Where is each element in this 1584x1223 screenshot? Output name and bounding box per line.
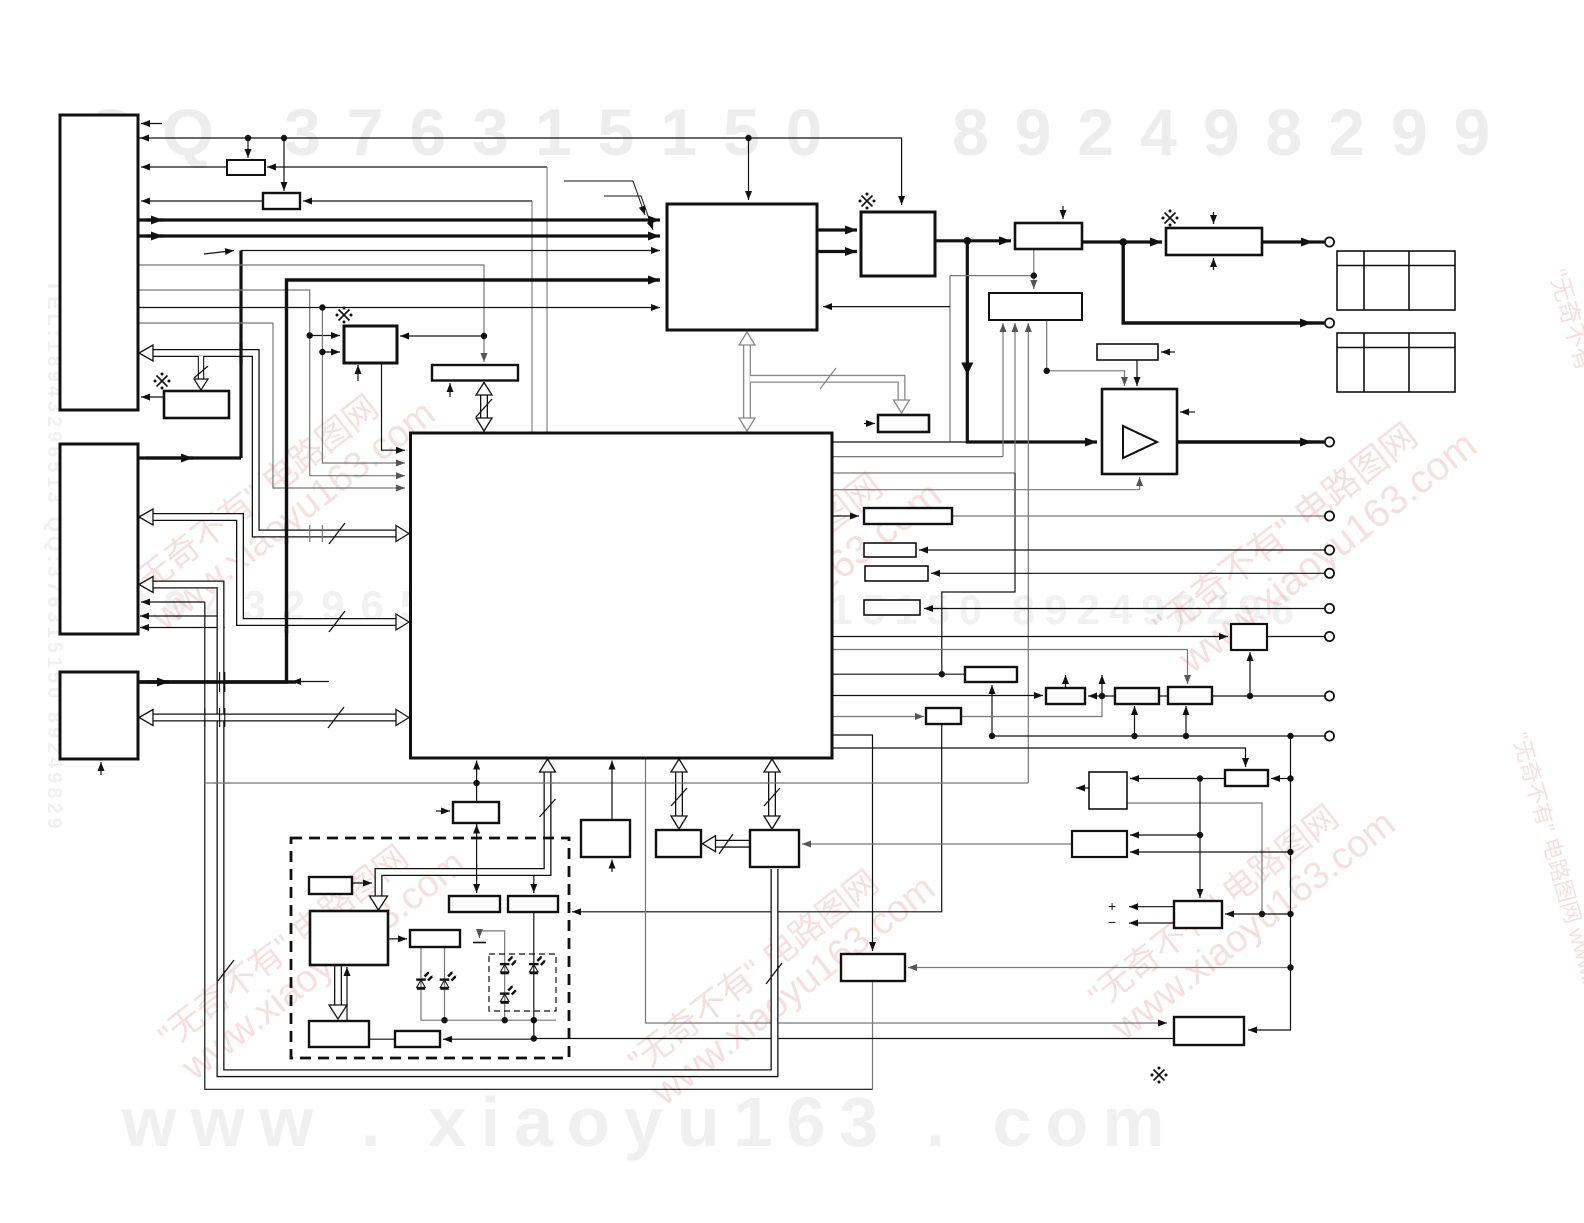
wire LED rail to AF y1038.5 <box>534 1038 1174 1040</box>
wire thick bus A to E (2) <box>138 234 660 237</box>
IC B connector block <box>60 444 138 634</box>
node CN3 <box>1325 437 1334 446</box>
node CN4 <box>1325 511 1334 520</box>
IC L block <box>878 415 929 432</box>
wire D to M <box>832 515 859 517</box>
slash E-D branch gray <box>820 368 836 389</box>
node dots <box>245 135 251 141</box>
IC Y block <box>656 830 701 857</box>
bus W1-D bidirectional <box>480 390 488 424</box>
IC AF block <box>1174 1017 1244 1045</box>
IC I block <box>989 293 1082 320</box>
LED ph4 <box>529 956 546 973</box>
IC X block <box>581 820 630 857</box>
ground <box>478 931 480 938</box>
wire net A-E-F top rail <box>140 137 146 139</box>
wire zigzag 1015 down to R rail <box>942 473 1015 672</box>
wire redraw crossings over buses <box>138 343 779 880</box>
wire V bottom to dashed box <box>572 724 942 912</box>
wire FL bottom stub <box>357 365 359 381</box>
IC H filter block <box>1166 228 1262 255</box>
wire W left stub <box>436 810 450 812</box>
node CN2 <box>1325 318 1334 327</box>
wire vertical 532 to D top <box>531 201 533 433</box>
bus D-Z bidirectional <box>768 766 776 824</box>
wire H bottom stub <box>1213 258 1215 270</box>
wire V right to dot1102 <box>961 696 1102 717</box>
wire U out to CN9 <box>1212 695 1324 697</box>
IC d1 block <box>309 877 352 894</box>
wire stub into IC A pin1 <box>141 123 162 125</box>
wire C bottom stub <box>100 762 102 775</box>
wire M out to CN4 <box>952 515 1324 517</box>
svg-text:www . xiaoyu163 . com: www . xiaoyu163 . com <box>121 1083 1179 1161</box>
wire J right stub <box>1161 351 1175 353</box>
slash B-D bus <box>329 611 345 632</box>
arrowhead on F feed vertical <box>961 363 973 376</box>
wire D to V <box>832 716 924 718</box>
bus branch to L gray <box>750 379 902 400</box>
wire block1 right feed <box>267 166 547 168</box>
wire vertical 1290 <box>1248 736 1291 1030</box>
note mark FL <box>336 307 353 324</box>
wire L left stub <box>864 423 875 425</box>
bus D-Y bidirectional <box>675 766 683 824</box>
slash A-D bus <box>329 523 345 544</box>
IC W block <box>453 802 499 823</box>
wire dot1102 up stub <box>1101 675 1103 696</box>
wire I-bottom to amp top gray <box>1046 321 1048 371</box>
wire S top stub <box>1065 675 1067 687</box>
IC A main connector block <box>60 115 138 410</box>
wire F vertical to amp rail <box>967 241 1097 442</box>
wire AB left to AC2 <box>1130 778 1225 780</box>
IC P block <box>864 600 920 615</box>
slash D-Z bus <box>764 788 780 806</box>
bus stub into G1 <box>198 356 204 382</box>
wire X top to D bottom <box>611 761 613 821</box>
wire AD right feed <box>1225 913 1291 915</box>
wire line vert241 to E (3) <box>241 250 660 252</box>
IC d6 block <box>449 896 500 912</box>
wire zigzag into E right <box>949 276 951 442</box>
WATERMARKS-RED <box>121 266 1584 1114</box>
wire R bottom from rail736 <box>991 685 993 736</box>
LED ph3 <box>500 956 517 973</box>
wire thick branch down to CN2 <box>1123 242 1312 323</box>
wire FL bottom to D pin1 <box>382 363 406 450</box>
slash D-Y bus <box>671 788 687 806</box>
IC AD motor driver <box>1174 901 1222 928</box>
IC N block <box>864 543 916 557</box>
wire D pin to I bottom a <box>832 456 1003 458</box>
svg-text:892498299: 892498299 <box>952 95 1516 169</box>
wire A y307.5 to E pin5 <box>138 307 660 309</box>
R block2 <box>263 193 300 209</box>
wire D to AE top <box>832 735 873 951</box>
IC V block <box>926 708 961 724</box>
LED ph5 <box>500 986 517 1003</box>
LED ph2 <box>440 972 457 989</box>
IC T regulator <box>1115 688 1159 704</box>
wire T to U <box>1159 695 1168 697</box>
wire drop to E top <box>748 138 750 200</box>
wire AE right feed <box>908 967 1291 969</box>
wire J bottom to amp top <box>1136 360 1138 386</box>
wire E to F thick 2 <box>817 250 857 253</box>
wire AD out plus <box>1129 906 1174 908</box>
wire AC2 left stub <box>1076 787 1089 789</box>
wire AB right feed <box>1271 778 1291 780</box>
wire amp out to CN3 <box>1177 440 1312 443</box>
wire vertical 547 to D top <box>546 167 548 433</box>
wire B stub 627 <box>140 627 225 629</box>
wire gnd branch gray <box>479 931 504 1020</box>
wire vertical 1200 to AD top <box>1199 779 1201 899</box>
IC W1 wide block <box>432 365 518 381</box>
wire H out to CN1 <box>1262 240 1313 243</box>
wire Q out to CN8 <box>1267 636 1324 638</box>
wire AC3 in1 <box>1130 834 1200 836</box>
wire B stub 616 <box>140 615 220 617</box>
wire D bottom to AF y1023 <box>646 758 1168 1023</box>
bus A-D bidirectional <box>145 353 400 534</box>
IC R block <box>965 667 1017 682</box>
wire U bottom from rail736 <box>1185 706 1187 736</box>
IC d7 block <box>508 896 558 912</box>
table T2 <box>1337 333 1455 392</box>
wire d4 led leg1 <box>421 947 556 1020</box>
wire D pin to I bottom b <box>832 472 1015 474</box>
wire dot1102 to S right <box>1088 695 1102 697</box>
wire D pin to amp bottom <box>832 489 1140 491</box>
wire pointer stub at vert241 <box>204 251 234 255</box>
wire line into A from block1 <box>141 166 227 168</box>
node CN5 <box>1325 545 1334 554</box>
wire D to AB top <box>832 748 1246 767</box>
wire AE bottom down <box>872 981 874 1089</box>
svg-text:QQ 376315150: QQ 376315150 <box>85 95 848 169</box>
slash D-d2 bus <box>540 799 556 817</box>
wire block2 right feed <box>303 200 532 202</box>
wire thin stub at C bus corner <box>292 681 329 683</box>
wire AD out minus <box>1129 922 1174 924</box>
IC C connector block <box>60 672 138 759</box>
note mark bottom <box>1151 1067 1168 1084</box>
wire d3 to d2 up arrow <box>346 967 348 1020</box>
IC d3 block <box>309 1021 369 1047</box>
node CN6 <box>1325 569 1334 578</box>
wire G bottom to I top <box>1033 249 1035 289</box>
IC AC2 block <box>1089 772 1127 809</box>
wire d1 out to shaft <box>352 882 372 884</box>
slash B-down bus left <box>218 960 234 981</box>
wire D to R <box>832 673 965 675</box>
wire line into A from block2 <box>141 200 263 202</box>
wire CN5 to N <box>919 549 1324 551</box>
wire thick bus A to E (1) <box>138 218 660 221</box>
IC U regulator <box>1168 687 1212 704</box>
wire gray bus 783 up to I bottom c <box>1027 323 1029 783</box>
wire thick vertical x241 <box>239 251 242 459</box>
R block1 <box>227 160 265 175</box>
bus B down to Z bottom <box>145 585 775 1074</box>
bus E-D gray <box>743 340 751 424</box>
wire drop to R-block2 <box>283 138 285 191</box>
bus d2-d3 <box>334 965 342 1007</box>
table T1 <box>1337 251 1455 310</box>
wire T bottom from rail736 <box>1134 706 1136 736</box>
wire A y290 corner down to D pin3 <box>138 290 405 476</box>
IC F DAC block <box>861 212 935 276</box>
node CN10 <box>1325 731 1334 740</box>
bus B-D <box>145 517 400 622</box>
wire D to U top <box>832 650 1188 685</box>
wire G1 to A <box>141 396 164 398</box>
LED ph1 <box>416 972 433 989</box>
slash G1 stub <box>194 366 208 378</box>
IC Z block <box>750 830 799 867</box>
wire vert 322 to D pin2 <box>322 308 405 464</box>
IC d5 block <box>395 1031 440 1047</box>
wire rail736 to CN10 <box>992 735 1324 737</box>
wire gray rail 783 <box>205 782 1028 784</box>
wire W bottom to d6 top <box>476 825 478 827</box>
wire branch into FL in1 <box>310 335 340 337</box>
wire D pin to W top <box>476 761 478 803</box>
wire drop to R-block1 <box>247 138 249 158</box>
op-amp U1 power amp box <box>1102 389 1177 474</box>
wire d7 bottom through led <box>533 912 535 1039</box>
wire pointer annotation 1 <box>564 181 645 215</box>
node CN7 <box>1325 604 1334 613</box>
wire d3 to d5 <box>369 1038 395 1040</box>
sensor dashed sub-enclosure <box>489 954 556 1011</box>
wire CN7 to P <box>924 608 1324 610</box>
wire d7 feed from bus <box>533 875 535 894</box>
wire CN6 to O <box>931 572 1324 574</box>
node CN1 <box>1325 237 1334 246</box>
wire A y323 to D pin4 <box>138 323 405 488</box>
IC J block <box>1097 344 1158 360</box>
wire W1 bottom stub <box>449 383 451 397</box>
IC Q block <box>1231 624 1267 650</box>
bus C-D bidirectional <box>145 714 400 722</box>
IC FL block <box>344 326 397 363</box>
note mark F <box>859 193 876 210</box>
wire G out thick to H <box>1082 240 1162 243</box>
wire d2 to d4 <box>388 938 407 940</box>
wire D to Q <box>832 636 1228 638</box>
slash C-D bus <box>328 707 344 728</box>
wire thick B to vert241 <box>138 456 241 459</box>
IC d2 loader block <box>310 911 388 965</box>
wire A y265 to W1 top <box>138 265 484 362</box>
node CN8 <box>1325 632 1334 641</box>
IC M block <box>864 508 952 524</box>
svg-text:−: − <box>1108 914 1116 930</box>
wire X bottom stub <box>611 860 613 873</box>
wire G top stub <box>1062 206 1064 219</box>
IC AE block <box>841 954 905 981</box>
IC O block <box>865 566 928 581</box>
wire D to S <box>832 695 1043 697</box>
svg-text:+: + <box>1108 898 1116 914</box>
wire branch into FL in2 <box>322 351 340 353</box>
wire F out thick to G <box>935 239 1011 242</box>
IC G buffer <box>1015 223 1082 249</box>
IC d4 block <box>410 930 460 947</box>
note mark G1 <box>154 373 171 390</box>
note mark H <box>1162 210 1179 227</box>
IC S regulator <box>1046 688 1085 704</box>
wire dot1033 branch left <box>950 275 1034 277</box>
wire amp right stub <box>1180 411 1195 413</box>
wire led rail to d5 <box>443 1038 534 1040</box>
IC G1 block <box>164 391 229 418</box>
IC E DSP block <box>667 204 817 330</box>
IC AC3 block <box>1072 831 1127 857</box>
wire dot1102 to T left <box>1102 695 1115 697</box>
wire AC3 in2 <box>1130 851 1291 853</box>
bus Z-Y <box>709 840 749 848</box>
node CN9 <box>1325 691 1334 700</box>
wire E to F thick 1 <box>817 228 857 231</box>
wire Q bottom from 696 <box>1249 652 1251 696</box>
wire pointer annotation 2 <box>604 196 653 230</box>
bus D bottom to d2 <box>379 766 548 903</box>
wire D pin to amp rail thin <box>832 441 967 443</box>
wire branch to FL right <box>400 335 484 337</box>
slash Z-Y bus <box>719 834 733 854</box>
wire AC2 right gray down <box>1127 803 1262 914</box>
IC D system microcomputer <box>411 433 833 758</box>
wire d4 led leg2 <box>444 947 446 1020</box>
wire B pin602 long bus <box>141 601 205 603</box>
wire AC3 left to Z right <box>802 843 1072 845</box>
wire thick C bus up to E pin4 <box>138 280 660 682</box>
wire H top stub <box>1213 212 1215 224</box>
IC AB block <box>1225 770 1268 786</box>
slash B-down bus right <box>766 963 782 984</box>
slash W1-D bus <box>476 399 492 417</box>
mechanism dashed enclosure <box>291 838 569 1058</box>
